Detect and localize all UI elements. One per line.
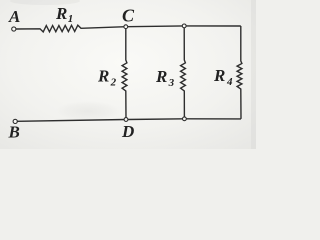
svg-text:C: C	[122, 5, 135, 25]
svg-text:D: D	[121, 122, 134, 141]
svg-text:4: 4	[226, 76, 233, 88]
svg-text:B: B	[8, 122, 20, 141]
svg-text:1: 1	[68, 13, 74, 25]
svg-text:3: 3	[168, 77, 175, 89]
svg-text:A: A	[8, 7, 20, 26]
svg-text:R: R	[213, 66, 225, 85]
svg-text:R: R	[155, 67, 167, 86]
svg-text:R: R	[55, 4, 67, 23]
svg-text:2: 2	[110, 77, 117, 89]
svg-text:R: R	[97, 67, 109, 86]
